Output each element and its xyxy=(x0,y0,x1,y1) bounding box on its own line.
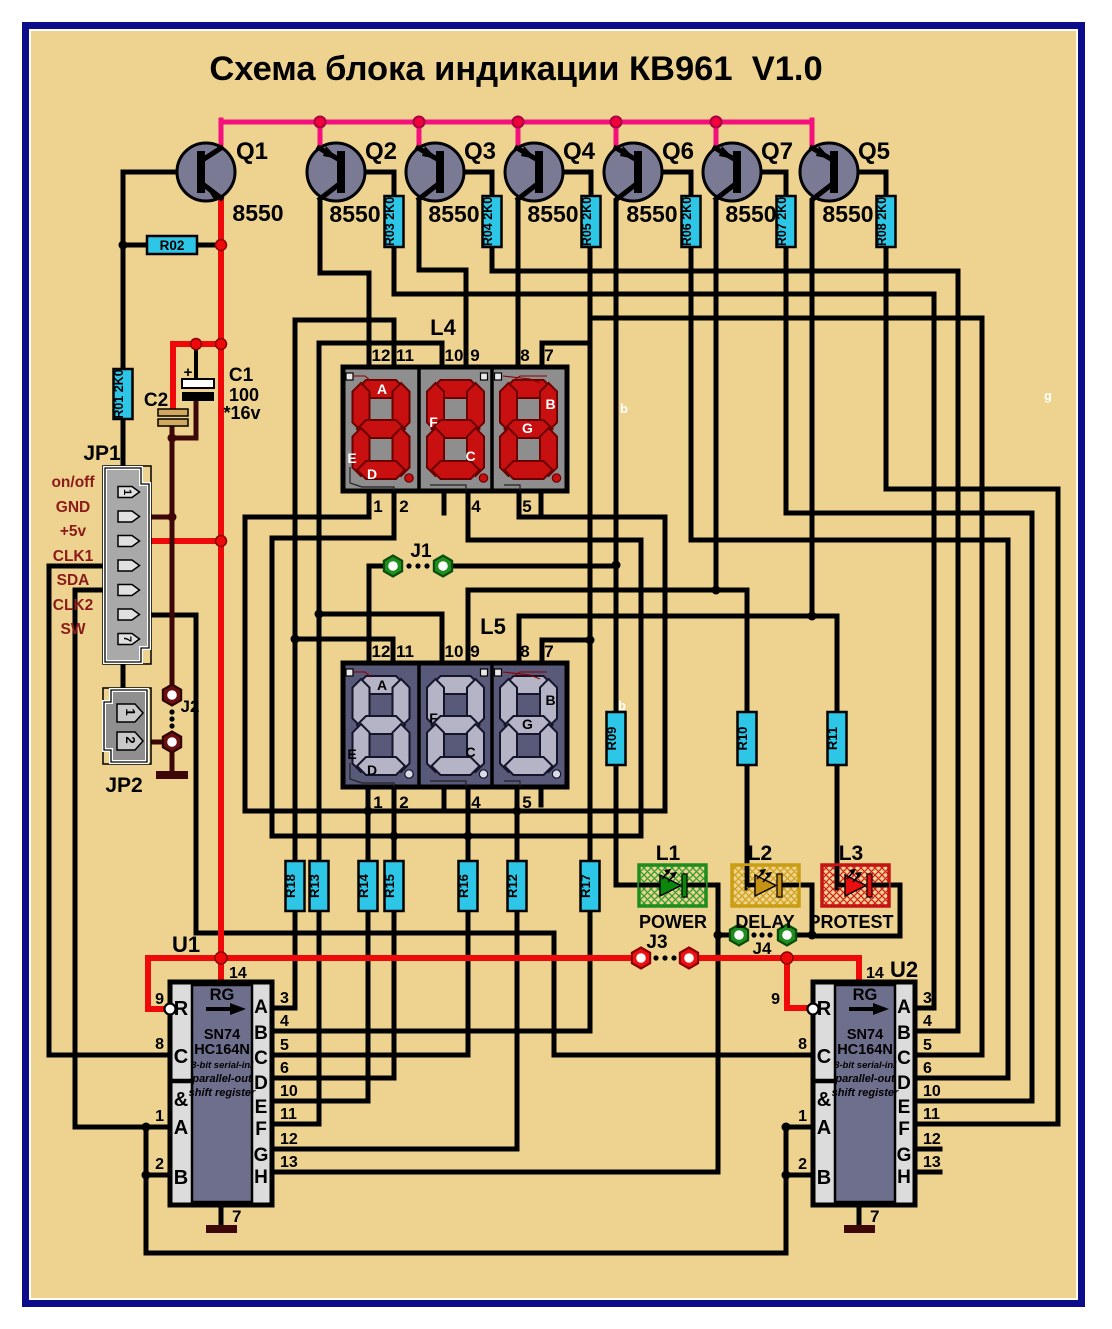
wire: U1 pin10 (E) to R14 xyxy=(272,911,368,1101)
svg-text:G: G xyxy=(897,1145,912,1166)
JP1 pin 6 xyxy=(118,609,140,620)
wire: CLK2 from JP1 pin6 to U2 pin8 xyxy=(144,615,815,1055)
resistor R10 xyxy=(735,712,757,765)
resistor R14 xyxy=(356,861,378,911)
wire: Q3 base lead to resistor xyxy=(443,172,492,198)
wire: Q5 base lead to resistor xyxy=(837,172,886,198)
svg-text:Q3: Q3 xyxy=(464,138,496,165)
wire: C1 plus lead xyxy=(194,348,198,380)
wire: L1 cathode to J4 node xyxy=(692,885,718,935)
svg-text:G: G xyxy=(522,716,533,732)
svg-text:B: B xyxy=(545,396,555,412)
svg-text:D: D xyxy=(897,1073,911,1094)
wire: R18 column branch to L5 pin11 xyxy=(295,639,393,665)
svg-text:11: 11 xyxy=(396,642,414,661)
svg-text:8: 8 xyxy=(798,1036,807,1053)
wire: red stub to U2 pin14 xyxy=(856,958,862,982)
svg-text:10: 10 xyxy=(280,1083,298,1100)
svg-text:10: 10 xyxy=(445,346,464,365)
display L5 (3-digit 7-segment) xyxy=(343,663,567,787)
svg-text:5: 5 xyxy=(522,497,531,516)
wire: bus B bottom run y=836 xyxy=(272,834,641,839)
svg-text:HC164N: HC164N xyxy=(837,1042,893,1058)
svg-text:2: 2 xyxy=(399,497,408,516)
svg-text:7: 7 xyxy=(121,636,133,642)
svg-text:8550: 8550 xyxy=(527,201,578,227)
wire: L4 pin10 riser to R13 column xyxy=(319,343,442,861)
wire: bus A west (L4 pin1 riser) xyxy=(245,490,369,811)
resistor R12 xyxy=(505,861,527,911)
wire: L5 pin1 column to R14 xyxy=(366,787,371,861)
junction red: U2 reset/pin14 node xyxy=(781,952,793,964)
junction red: JP1 +5v node xyxy=(216,536,227,547)
wire: J2 bottom pad to ground symbol xyxy=(170,750,175,772)
svg-text:5: 5 xyxy=(522,793,531,812)
svg-text:E: E xyxy=(347,746,356,762)
wire: J4 right pad to node (812,935) xyxy=(796,933,812,938)
resistor R08 xyxy=(875,196,896,247)
svg-text:SW: SW xyxy=(61,621,86,638)
svg-text:E: E xyxy=(898,1097,911,1118)
svg-text:13: 13 xyxy=(280,1154,298,1171)
wire: J1 right pad to node (616,565) xyxy=(451,564,616,569)
LED L3 (PROTEST) xyxy=(822,865,889,906)
wire: red drop to U2 pin9 (reset) xyxy=(787,958,806,1008)
svg-text:R10: R10 xyxy=(735,727,750,751)
transistor Q3 (8550 PNP) xyxy=(406,143,464,201)
svg-text:E: E xyxy=(347,450,356,466)
svg-text:9: 9 xyxy=(155,991,164,1008)
svg-text:C: C xyxy=(465,744,475,760)
jumper J3 dotted gap xyxy=(653,955,658,960)
svg-text:R04 2K0: R04 2K0 xyxy=(481,197,495,246)
wire: pink stub to Q4 emitter xyxy=(516,122,521,149)
junction on pink rail at Q2 xyxy=(315,117,326,128)
svg-text:R06 2K0: R06 2K0 xyxy=(680,197,694,246)
wire: SDA from JP1 pin5 to U1 pin1 xyxy=(75,590,170,1127)
svg-text:6: 6 xyxy=(923,1060,932,1077)
resistor R07 xyxy=(775,196,796,247)
svg-text:Q2: Q2 xyxy=(365,138,397,165)
jumper J3 left pad xyxy=(632,948,650,969)
wire: pink stub to Q2 emitter xyxy=(318,122,323,149)
svg-text:shift register: shift register xyxy=(189,1087,256,1099)
wire: red +5V from Q1 collector down to U1 pin14 xyxy=(218,197,224,982)
JP1 pin 2 xyxy=(118,511,140,522)
svg-text:C1: C1 xyxy=(229,365,254,386)
svg-text:11: 11 xyxy=(923,1106,940,1123)
wire: Q7 base lead to resistor xyxy=(740,172,786,198)
wire: bus B west (L4 pin2 riser) xyxy=(272,490,394,836)
svg-text:J4: J4 xyxy=(753,939,772,958)
svg-text:3: 3 xyxy=(923,990,932,1007)
svg-text:B: B xyxy=(174,1167,188,1189)
svg-text:6: 6 xyxy=(280,1060,289,1077)
junction maroon: C1/C2 ground node xyxy=(168,434,177,443)
svg-text:10: 10 xyxy=(923,1083,941,1100)
JP1 pin 3 xyxy=(118,536,140,547)
display L4 (3-digit 7-segment) xyxy=(343,367,567,491)
resistor R11 xyxy=(825,712,847,765)
wire: R02 right lead xyxy=(197,243,218,248)
svg-text:A: A xyxy=(817,1117,831,1139)
svg-text:2: 2 xyxy=(155,1156,164,1173)
junction: Q7 collector node xyxy=(712,586,721,595)
wire: Q2 collector to L4 pin12 xyxy=(320,201,369,369)
jumper J2 bottom pad xyxy=(163,732,181,753)
svg-text:12: 12 xyxy=(280,1131,298,1148)
svg-text:&: & xyxy=(174,1089,188,1111)
svg-text:CLK1: CLK1 xyxy=(53,548,94,565)
wire: L5 pin2 column to R15 xyxy=(392,787,397,861)
wire: pink stub to Q3 emitter xyxy=(417,122,422,149)
wire: column 590 to U2 pin5 (output C) xyxy=(590,318,982,1055)
svg-text:14: 14 xyxy=(229,965,247,982)
wire: Q4 base lead to resistor xyxy=(542,172,591,198)
svg-text:5: 5 xyxy=(280,1037,289,1054)
svg-text:Схема блока индикации КВ961 V: Схема блока индикации КВ961 V1.0 xyxy=(209,50,822,88)
junction: U1 pin1 tie xyxy=(142,1123,151,1132)
wire: L3 cathode loop to node (812,935) xyxy=(812,885,900,936)
wire: L5 pin3 stub xyxy=(442,787,447,808)
wire: JP1 pin2 GND link xyxy=(144,515,172,520)
svg-text:R07 2K0: R07 2K0 xyxy=(775,197,789,246)
svg-text:DELAY: DELAY xyxy=(735,912,794,932)
wire: pink stub to Q1 emitter xyxy=(219,120,224,146)
junction: U2 pin2 tie xyxy=(782,1171,791,1180)
wire: pink stub to Q7 emitter xyxy=(714,122,719,149)
wire: red branch to C2 top xyxy=(173,344,221,410)
svg-text:A: A xyxy=(254,997,268,1018)
wire: Q5 node west to L5 pin8 xyxy=(519,616,812,665)
svg-text:R17: R17 xyxy=(578,874,593,898)
junction red: U1 pin14 node xyxy=(215,952,227,964)
resistor R09 xyxy=(604,712,626,765)
wire: L5 pin6 stub xyxy=(539,787,544,805)
jumper J1 dotted gap xyxy=(406,563,411,568)
svg-text:12: 12 xyxy=(372,642,391,661)
svg-text:R11: R11 xyxy=(825,727,840,750)
svg-text:R05 2K0: R05 2K0 xyxy=(580,197,594,246)
wire: L4 pin7 link to column 590 xyxy=(542,343,590,369)
wire: U1 pin6 (D) to R15 xyxy=(272,911,394,1078)
wire: U1 pin4 (B) to R17 xyxy=(272,911,590,1031)
LED L2 (DELAY) xyxy=(732,865,799,906)
junction: bus B / L5 pin4 column xyxy=(464,832,473,841)
svg-text:7: 7 xyxy=(544,346,553,365)
wire: L5 pin4 column to R16 xyxy=(466,787,471,861)
wire: pink stub to Q5 emitter xyxy=(810,120,815,148)
svg-text:Q7: Q7 xyxy=(761,138,793,165)
svg-text:12: 12 xyxy=(923,1131,941,1148)
wire: pink +V rail (top) xyxy=(221,120,812,125)
svg-text:Q5: Q5 xyxy=(858,138,890,165)
wire: J4/H bus down to U1 pin13 xyxy=(272,935,718,1172)
JP1 pin 4 xyxy=(118,560,140,571)
svg-text:D: D xyxy=(367,762,377,778)
svg-text:8-bit serial-in/: 8-bit serial-in/ xyxy=(834,1060,897,1071)
svg-text:J1: J1 xyxy=(410,541,432,562)
wire: L4 pin6 stub xyxy=(539,490,544,512)
wire: R04 bottom to U2 pin4 (output B) xyxy=(492,247,958,1031)
svg-text:J2: J2 xyxy=(181,697,200,716)
svg-text:8550: 8550 xyxy=(428,201,479,227)
wire: U1 pin5 (C) to R16 xyxy=(272,911,468,1055)
jumper J4 right pad xyxy=(778,925,796,946)
svg-text:RG: RG xyxy=(210,986,235,1004)
transistor Q1 (8550 PNP) xyxy=(177,143,235,201)
junction on pink rail at Q4 xyxy=(513,117,524,128)
svg-text:9: 9 xyxy=(470,642,479,661)
svg-text:8-bit serial-in/: 8-bit serial-in/ xyxy=(191,1060,254,1071)
svg-text:8550: 8550 xyxy=(329,201,380,227)
svg-text:J3: J3 xyxy=(646,932,667,953)
svg-text:D: D xyxy=(254,1073,268,1094)
junction maroon: JP1 GND node xyxy=(168,513,177,522)
wire: U2 pin13 stub xyxy=(913,1170,940,1175)
wire: red rail J3 right pad to U2 area xyxy=(697,955,859,961)
svg-text:G: G xyxy=(522,420,533,436)
svg-text:4: 4 xyxy=(471,497,481,516)
transistor Q2 (8550 PNP) xyxy=(307,143,365,201)
svg-text:F: F xyxy=(429,710,438,726)
junction: Q6 collector / J1 / R09 node xyxy=(612,561,621,570)
svg-text:R08 2K0: R08 2K0 xyxy=(875,197,889,246)
resistor R02 xyxy=(147,236,197,254)
wire: red loop to U1 pin9 (reset) xyxy=(148,958,163,1009)
svg-text:H: H xyxy=(897,1167,911,1188)
svg-text:1: 1 xyxy=(798,1108,807,1125)
junction on pink rail at Q7 xyxy=(711,117,722,128)
svg-text:R14: R14 xyxy=(356,873,371,898)
jumper J2 dotted gap xyxy=(169,709,174,714)
junction: U1 pin2 tie xyxy=(142,1171,151,1180)
junction on pink rail at Q3 xyxy=(414,117,425,128)
ground symbol below U1 xyxy=(206,1205,237,1233)
resistor R05 xyxy=(580,196,601,247)
svg-text:b: b xyxy=(618,698,626,713)
resistor R15 xyxy=(382,861,404,911)
svg-text:parallel-out: parallel-out xyxy=(191,1073,253,1085)
junction red: C1 plus node xyxy=(191,339,202,350)
svg-text:9: 9 xyxy=(470,346,479,365)
wire: U2 pin12 stub xyxy=(913,1147,940,1152)
IC U1 SN74HC164N shift register xyxy=(165,982,273,1205)
wire: bus A east (L4 pin5 riser) xyxy=(519,490,665,811)
resistor R04 xyxy=(481,196,502,247)
IC U2 SN74HC164N shift register xyxy=(808,982,916,1205)
svg-text:11: 11 xyxy=(396,346,414,365)
svg-text:b: b xyxy=(620,401,628,416)
jumper J3 right pad xyxy=(680,948,698,969)
wire: R06 bottom to U2 pin6 (output D) xyxy=(691,247,1008,1078)
wire: R03 bottom to U2 pin3 (output A) xyxy=(394,247,934,1008)
svg-text:JP2: JP2 xyxy=(105,774,142,797)
resistor R17 xyxy=(578,861,600,911)
junction: R18 column / L5 pin11 branch xyxy=(291,635,300,644)
svg-text:L5: L5 xyxy=(480,614,506,639)
svg-text:SDA: SDA xyxy=(57,572,90,589)
JP1 pin 1 xyxy=(118,487,140,498)
transistor Q6 (8550 PNP) xyxy=(604,143,662,201)
svg-text:+: + xyxy=(184,364,193,381)
svg-text:U2: U2 xyxy=(890,957,918,982)
svg-text:7: 7 xyxy=(544,642,553,661)
resistor R16 xyxy=(456,861,478,911)
jumper J1 left pad xyxy=(384,556,402,577)
jumper J2 top pad xyxy=(163,685,181,706)
svg-text:B: B xyxy=(897,1023,911,1044)
resistor R18 xyxy=(283,861,305,911)
svg-text:8550: 8550 xyxy=(725,201,776,227)
svg-text:G: G xyxy=(254,1145,269,1166)
wire: Q1 base to node at x=123 xyxy=(123,172,199,245)
wire: maroon GND column (C2 bottom to J2) xyxy=(170,426,175,687)
junction: L2/L3 cathodes / J4 right xyxy=(808,931,817,940)
svg-text:+5v: +5v xyxy=(60,523,87,540)
JP2 pin 1 xyxy=(117,704,143,722)
junction: L1 cathode / J4 / U1-H bus xyxy=(714,931,723,940)
svg-text:1: 1 xyxy=(123,708,138,715)
svg-text:8550: 8550 xyxy=(626,201,677,227)
svg-text:13: 13 xyxy=(923,1154,941,1171)
wire: R07 bottom to U2 pin10 (output E) xyxy=(786,247,1032,1101)
junction: Q5 collector node xyxy=(808,612,817,621)
svg-text:*16v: *16v xyxy=(223,403,260,423)
svg-text:8550: 8550 xyxy=(822,201,873,227)
junction red: R02 right / +5V column xyxy=(216,240,227,251)
transistor Q7 (8550 PNP) xyxy=(703,143,761,201)
wire: Q7 node west to L5 pin9 xyxy=(468,590,716,665)
svg-text:shift register: shift register xyxy=(832,1087,899,1099)
wire: bus B east (L4 pin4 riser) xyxy=(468,490,641,836)
wire: Q7 node east branch to R10 xyxy=(716,590,747,712)
wire: U1 pin2 tie xyxy=(146,1173,170,1178)
wire: L4 pin3 stub xyxy=(442,490,447,513)
junction: bus A / L5 pin1 column xyxy=(364,807,373,816)
wire: column 590 from 318 down to R17 xyxy=(588,318,593,861)
svg-text:R16: R16 xyxy=(456,874,471,898)
junction: Q1 base / R02 / R01 node xyxy=(119,241,128,250)
svg-text:Q4: Q4 xyxy=(563,138,596,165)
junction: column 590 / L5 pin7 xyxy=(586,636,595,645)
ground symbol below U2 xyxy=(844,1205,875,1233)
svg-text:C: C xyxy=(174,1046,188,1068)
svg-text:HC164N: HC164N xyxy=(194,1042,250,1058)
svg-text:B: B xyxy=(545,692,555,708)
LED L1 (POWER) xyxy=(639,865,706,906)
resistor R06 xyxy=(680,196,701,247)
svg-text:F: F xyxy=(255,1119,267,1140)
wire: L5 pin5 column to R12 xyxy=(515,787,520,861)
junction on pink rail at Q6 xyxy=(611,117,622,128)
svg-text:11: 11 xyxy=(280,1106,297,1123)
svg-text:7: 7 xyxy=(870,1207,879,1226)
svg-text:R12: R12 xyxy=(505,874,520,898)
connector JP2 (2-pin header) xyxy=(103,688,151,764)
svg-text:1: 1 xyxy=(121,489,133,495)
svg-text:R15: R15 xyxy=(382,874,397,898)
wire: C1 bottom lead to GND column xyxy=(172,400,196,438)
connector JP1 (7-pin header) xyxy=(103,466,151,664)
svg-text:D: D xyxy=(367,466,377,482)
svg-text:R03 2K0: R03 2K0 xyxy=(383,197,397,246)
svg-text:C: C xyxy=(465,448,475,464)
wire: U1 pin11 (F) to R13 xyxy=(272,911,319,1124)
wire: SW from JP1 pin7 to JP2 pin1 xyxy=(121,661,126,700)
svg-text:RG: RG xyxy=(853,986,878,1004)
svg-text:C: C xyxy=(254,1048,268,1069)
wire: U2 pin2 tie xyxy=(786,1173,815,1178)
svg-text:GND: GND xyxy=(56,499,90,516)
svg-text:1: 1 xyxy=(155,1108,164,1125)
svg-text:JP1: JP1 xyxy=(83,442,121,465)
svg-text:&: & xyxy=(817,1089,831,1111)
wire: Q7 collector down to node (716,590) xyxy=(714,201,719,590)
svg-text:A: A xyxy=(377,677,387,693)
JP2 pin 2 xyxy=(117,732,143,750)
jumper J4 left pad xyxy=(730,925,748,946)
wire: Q4 collector to L4 pin8 xyxy=(516,201,521,369)
svg-text:Q6: Q6 xyxy=(662,138,694,165)
junction: R13 column / L5 pin10 branch xyxy=(315,610,324,619)
wire: R05 bottom joins column x=590 xyxy=(588,247,593,318)
svg-text:L3: L3 xyxy=(839,842,864,865)
wire: node 123 down to R01 top xyxy=(121,245,126,369)
svg-text:R02: R02 xyxy=(160,238,185,253)
svg-text:2: 2 xyxy=(798,1156,807,1173)
wire: L4 pin11 riser to R18 column xyxy=(295,320,394,861)
wire: U1 pin3 (A) to R18 xyxy=(272,911,295,1008)
svg-text:F: F xyxy=(429,414,438,430)
svg-text:E: E xyxy=(255,1097,268,1118)
svg-text:CLK2: CLK2 xyxy=(53,597,93,614)
wire: node (616,565) down to R09 xyxy=(614,566,619,712)
svg-text:U1: U1 xyxy=(172,932,200,957)
wire: red +5V horizontal rail to J3 xyxy=(148,955,632,961)
transistor Q4 (8550 PNP) xyxy=(505,143,563,201)
svg-text:3: 3 xyxy=(280,990,289,1007)
capacitor C2 xyxy=(158,409,188,426)
svg-text:on/off: on/off xyxy=(51,474,95,491)
svg-text:g: g xyxy=(1044,388,1052,403)
svg-text:PROTEST: PROTEST xyxy=(808,912,893,932)
resistor R13 xyxy=(307,861,329,911)
wire: pink stub to Q6 emitter xyxy=(614,122,619,149)
transistor Q5 (8550 PNP) xyxy=(800,143,858,201)
svg-text:R01 2K0: R01 2K0 xyxy=(112,369,126,418)
wire: Q6 collector down to node (616,565) xyxy=(614,201,619,565)
svg-text:4: 4 xyxy=(280,1013,289,1030)
svg-text:12: 12 xyxy=(372,346,391,365)
junction red: +5V branch node xyxy=(216,339,227,350)
svg-text:B: B xyxy=(254,1023,268,1044)
svg-text:4: 4 xyxy=(471,793,481,812)
svg-text:R09: R09 xyxy=(604,727,619,751)
svg-text:L1: L1 xyxy=(656,842,681,865)
wire: Q6 base lead to resistor xyxy=(641,172,691,198)
svg-text:2: 2 xyxy=(123,736,138,743)
junction: bus A / L5 pin5 column xyxy=(513,807,522,816)
svg-text:8: 8 xyxy=(520,346,529,365)
wire: red +5V to JP1 pin3 xyxy=(144,538,221,544)
jumper J4 dotted gap xyxy=(751,932,756,937)
wire: U1 pin12 (G) to R12 xyxy=(272,911,517,1149)
capacitor C1 (electrolytic 100uF 16V) xyxy=(182,364,214,401)
junction: U2 pin1 tie xyxy=(782,1123,791,1132)
wire: Q3 collector to L4 pin9 xyxy=(419,201,466,369)
svg-text:B: B xyxy=(817,1167,831,1189)
